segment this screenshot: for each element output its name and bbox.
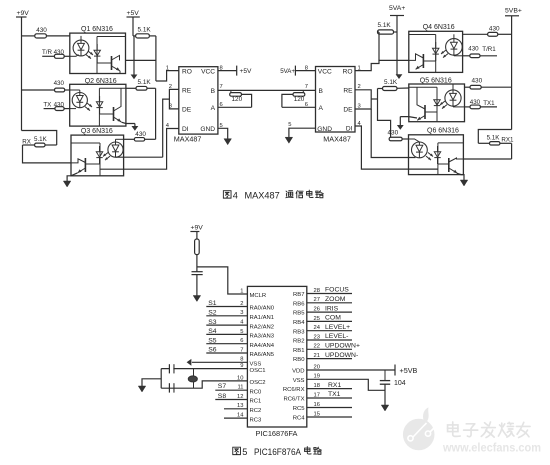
wire VDD pin20 to +5VB xyxy=(307,369,395,371)
svg-text:VCC: VCC xyxy=(201,68,215,75)
wire U2 RE pin2 / DE pin3 xyxy=(355,90,371,109)
svg-text:RC2: RC2 xyxy=(250,408,262,414)
svg-text:120: 120 xyxy=(232,96,243,103)
svg-text:FOCUS: FOCUS xyxy=(325,287,349,294)
wire Q4 LED cathode to T/R1 xyxy=(453,54,455,57)
wire U1 VCC pin8 to +5V xyxy=(218,70,237,72)
optocoupler Q2 transistor xyxy=(100,113,114,115)
svg-text:120: 120 xyxy=(294,96,305,103)
svg-text:VCC: VCC xyxy=(318,68,332,75)
ground (C4) xyxy=(381,405,389,411)
svg-text:LEVEL-: LEVEL- xyxy=(325,333,348,340)
wire 5.1K/RO net vertical xyxy=(155,36,157,81)
optocoupler Q5 LED xyxy=(452,84,454,90)
svg-text:MAX487: MAX487 xyxy=(245,191,280,201)
wire U1 RE pin2 xyxy=(169,89,178,109)
svg-text:DI: DI xyxy=(346,125,353,132)
svg-text:RC6/TX: RC6/TX xyxy=(284,397,305,403)
optocoupler Q2 LED xyxy=(79,90,81,92)
svg-text:430: 430 xyxy=(36,27,47,34)
wire ground tap (crystal) xyxy=(142,379,161,386)
svg-text:RX1: RX1 xyxy=(328,382,341,389)
svg-text:T/R1: T/R1 xyxy=(482,46,496,53)
svg-text:Q3 6N316: Q3 6N316 xyxy=(81,128,113,135)
resistor 5.1K pullup (RO) xyxy=(133,35,136,37)
svg-text:RB2: RB2 xyxy=(293,339,304,345)
svg-text:7: 7 xyxy=(305,84,308,90)
svg-text:RC6/RX: RC6/RX xyxy=(283,387,305,393)
svg-text:UPDOWN-: UPDOWN- xyxy=(325,352,358,359)
crystal Y1 xyxy=(193,369,195,389)
svg-text:RB4: RB4 xyxy=(293,320,305,326)
svg-text:Q1 6N316: Q1 6N316 xyxy=(81,26,113,33)
svg-text:RB3: RB3 xyxy=(293,329,305,335)
caption 图5 PIC16F876A电路 xyxy=(233,447,241,454)
wire Q6 collector to 5VB+ rail xyxy=(463,158,511,160)
wire A stub U2 pin6 xyxy=(282,106,316,108)
optocoupler Q1 LED xyxy=(80,36,82,40)
svg-text:430: 430 xyxy=(472,77,483,84)
svg-text:A: A xyxy=(211,105,216,112)
svg-text:5.1K: 5.1K xyxy=(138,79,152,86)
wire B line (U1 pin7 to U2 pin7) xyxy=(218,89,316,91)
svg-text:RA4/AN4: RA4/AN4 xyxy=(250,343,275,349)
svg-text:+9V: +9V xyxy=(17,10,30,17)
wire Q5 emitter to 430 (Q6 LED) xyxy=(400,117,417,118)
svg-text:Q5 6N316: Q5 6N316 xyxy=(420,77,452,84)
optocoupler Q3 emission arrows xyxy=(103,153,108,157)
svg-text:ZOOM: ZOOM xyxy=(325,296,346,303)
svg-text:5VA+: 5VA+ xyxy=(280,68,295,75)
svg-text:+9V: +9V xyxy=(191,225,204,232)
svg-text:RC0: RC0 xyxy=(250,389,263,395)
svg-text:RO: RO xyxy=(182,68,192,75)
wire pin13 stub xyxy=(224,408,247,410)
wire U1 DI pin4 to Q3 box xyxy=(100,129,179,170)
svg-text:+5V: +5V xyxy=(127,10,140,17)
svg-text:PIC16F876A: PIC16F876A xyxy=(254,447,302,457)
wire A stub U1 pin6 xyxy=(218,106,252,108)
svg-text:RB7: RB7 xyxy=(293,292,304,298)
svg-text:7: 7 xyxy=(220,84,223,90)
wire RE/DE to Q6 cathode net xyxy=(371,109,415,158)
svg-text:TX1: TX1 xyxy=(328,391,341,398)
svg-text:RE: RE xyxy=(182,87,192,94)
svg-text:430: 430 xyxy=(54,80,65,87)
svg-text:RA3/AN3: RA3/AN3 xyxy=(250,334,275,340)
wire crystal loop left xyxy=(160,369,162,389)
optocoupler Q2 inner transistor box xyxy=(98,88,100,126)
capacitor C2 (OSC1) xyxy=(168,364,170,373)
watermark text 电子发烧友 xyxy=(448,422,461,436)
svg-text:RB0: RB0 xyxy=(293,357,305,363)
wire RO pin1 connection xyxy=(156,71,179,81)
svg-text:430: 430 xyxy=(388,130,399,137)
svg-text:TX: TX xyxy=(43,101,51,108)
PIC16F876A U3 box xyxy=(247,286,306,427)
svg-text:T/R: T/R xyxy=(42,49,52,56)
svg-text:B: B xyxy=(319,88,324,95)
svg-text:RO: RO xyxy=(343,68,353,75)
svg-text:430: 430 xyxy=(468,46,479,53)
optocoupler Q4 LED xyxy=(453,34,455,38)
svg-text:5: 5 xyxy=(288,122,291,128)
optocoupler Q3 inner transistor box xyxy=(99,143,101,176)
wire U2 DI pin4 to Q6 box xyxy=(355,126,438,169)
svg-text:VSS: VSS xyxy=(250,362,262,368)
svg-text:RB5: RB5 xyxy=(293,311,305,317)
svg-text:5VB+: 5VB+ xyxy=(505,7,522,14)
wire 5VB+ jog to RX1 row xyxy=(478,130,511,144)
wire U2 GND pin5 to ground xyxy=(289,128,316,137)
optocoupler Q5 transistor xyxy=(425,111,437,113)
svg-text:S7: S7 xyxy=(218,383,227,390)
optocoupler Q1 photodiode xyxy=(96,44,98,50)
svg-text:RB6: RB6 xyxy=(293,301,305,307)
ground (U1 pin5) xyxy=(224,139,232,145)
wire OSC1 pin9 xyxy=(161,368,247,370)
U3 right pin stubs and signal labels xyxy=(307,293,352,295)
svg-text:+5VB: +5VB xyxy=(400,366,418,375)
svg-text:5.1K: 5.1K xyxy=(487,135,501,142)
resistor R1 (MCLR pullup) xyxy=(195,239,200,255)
optocoupler Q4 photodiode xyxy=(435,42,437,48)
svg-text:www.elecfans.com: www.elecfans.com xyxy=(442,443,541,455)
caption 图4 MAX487通信电路 xyxy=(223,191,231,198)
wire Q2 emitter to 430 (Q3 LED) xyxy=(121,122,134,123)
optocoupler Q6 photodiode xyxy=(437,146,439,152)
svg-text:4: 4 xyxy=(233,191,238,201)
optocoupler Q5 inner transistor box xyxy=(436,87,438,121)
resistor 430 (Q1 LED anode) xyxy=(22,35,35,37)
optocoupler Q3 LED xyxy=(115,139,117,142)
wire RX1 down to Q6 collector xyxy=(511,143,513,159)
svg-text:5VA+: 5VA+ xyxy=(389,5,405,12)
wire Q6 emitter to ground xyxy=(457,173,464,180)
svg-text:1: 1 xyxy=(240,288,243,294)
wire +9V rail jog to RX row xyxy=(22,131,57,146)
svg-text:104: 104 xyxy=(394,380,406,387)
svg-text:TX1: TX1 xyxy=(483,100,495,107)
wire U2 VCC pin8 to 5VA+ xyxy=(295,70,315,72)
svg-text:RA6/AN5: RA6/AN5 xyxy=(250,352,275,358)
wire VSS pin19 to ground net xyxy=(307,379,385,390)
optocoupler Q2 photodiode xyxy=(99,96,101,102)
optocoupler Q3 transistor xyxy=(85,163,99,165)
svg-text:GND: GND xyxy=(200,126,215,133)
wire Q3 emitter to ground xyxy=(67,173,77,181)
svg-text:GND: GND xyxy=(317,126,332,133)
wire RE/DE jog to 5.1K net xyxy=(371,98,377,100)
wire MCLR node to pin 1 xyxy=(197,267,248,294)
svg-text:430: 430 xyxy=(489,25,500,32)
ground (crystal) xyxy=(138,386,146,392)
wire RE/DE to Q3 cathode net xyxy=(163,99,170,157)
optocoupler Q5 emission arrows xyxy=(440,101,445,105)
svg-text:MAX487: MAX487 xyxy=(323,135,351,144)
svg-text:A: A xyxy=(319,105,324,112)
wire Q3 LED cathode to DE/RE net xyxy=(116,156,163,158)
wire 5.1K left to Q6 LED net (staircase) xyxy=(378,88,383,90)
svg-text:Q6 6N316: Q6 6N316 xyxy=(427,128,459,135)
svg-text:6: 6 xyxy=(305,102,308,108)
svg-text:IRIS: IRIS xyxy=(325,305,339,312)
svg-text:+5V: +5V xyxy=(240,68,253,75)
capacitor C4 104 xyxy=(384,370,386,380)
optocoupler Q4 emission arrows xyxy=(441,50,446,54)
svg-text:RC3: RC3 xyxy=(250,417,263,423)
wire 5.1K right to Q3 LED net xyxy=(155,88,157,139)
resistor 430 (Q2 LED anode) xyxy=(22,89,55,91)
svg-text:OSC1: OSC1 xyxy=(250,368,266,374)
optocoupler Q5 photodiode xyxy=(436,94,438,100)
optocoupler Q1 transistor xyxy=(97,62,111,64)
svg-text:DE: DE xyxy=(343,107,353,114)
svg-text:RC5: RC5 xyxy=(293,406,306,412)
ground (U2 pin5) xyxy=(285,137,293,143)
svg-text:5.1K: 5.1K xyxy=(384,79,398,86)
svg-text:RB1: RB1 xyxy=(293,348,304,354)
MAX487 U2 box xyxy=(316,67,356,133)
optocoupler Q6 LED xyxy=(409,139,420,142)
wire OSC2 pin10 xyxy=(194,381,248,388)
wire U2 RO pin1 to Q4 collector xyxy=(355,60,409,70)
svg-text:VSS: VSS xyxy=(293,378,305,384)
svg-text:VDD: VDD xyxy=(292,369,304,375)
wire U1 GND pin5 to ground xyxy=(218,128,228,138)
watermark elecfans logo xyxy=(403,408,435,451)
svg-text:OSC2: OSC2 xyxy=(250,380,266,386)
wire 5VA+ branch down xyxy=(396,32,398,76)
wire +5V branch to 5.1K (RE/DE pullup) xyxy=(133,36,135,76)
svg-text:RA0/AN0: RA0/AN0 xyxy=(250,306,275,312)
svg-text:RE: RE xyxy=(343,87,353,94)
wire pin14 stub xyxy=(224,417,247,419)
svg-text:MAX487: MAX487 xyxy=(174,135,202,144)
ground (Q6 emitter) xyxy=(460,180,468,186)
svg-text:1: 1 xyxy=(166,65,169,71)
resistor 120 (right termination) xyxy=(282,94,293,107)
svg-text:PIC16876FA: PIC16876FA xyxy=(256,429,298,438)
svg-text:RC1: RC1 xyxy=(250,399,262,405)
optocoupler Q6 transistor xyxy=(438,163,449,165)
ground (Q3 emitter) xyxy=(63,181,71,187)
svg-text:RA1/AN1: RA1/AN1 xyxy=(250,315,275,321)
svg-text:RX1: RX1 xyxy=(501,136,514,143)
svg-text:5.1K: 5.1K xyxy=(138,27,152,34)
svg-text:RA2/AN2: RA2/AN2 xyxy=(250,324,275,330)
optocoupler Q1 emission arrows xyxy=(88,51,93,55)
optocoupler Q2 emission arrows xyxy=(87,103,92,107)
optocoupler Q6 inner transistor box xyxy=(437,143,439,175)
optocoupler Q4 inner transistor box xyxy=(435,35,437,73)
svg-text:B: B xyxy=(211,88,216,95)
optocoupler Q3 photodiode xyxy=(99,146,101,152)
optocoupler Q6 emission arrows xyxy=(428,153,433,157)
MAX487 U1 box xyxy=(179,67,218,134)
capacitor C3 (OSC2) xyxy=(168,383,170,392)
svg-text:5: 5 xyxy=(242,447,247,457)
resistor 120 (left termination) xyxy=(230,90,232,92)
wire Q5 collector to 5.1K net xyxy=(397,87,409,89)
ground (C1) xyxy=(193,296,201,302)
optocoupler Q4 transistor xyxy=(423,60,435,62)
svg-text:COM: COM xyxy=(325,315,341,322)
wire Q1 collector to RO net xyxy=(126,59,156,61)
wire VSS pin8 arrow xyxy=(192,361,248,363)
svg-text:DI: DI xyxy=(182,126,189,133)
svg-text:5.1K: 5.1K xyxy=(378,22,392,29)
optocoupler Q1 inner transistor box xyxy=(96,37,98,74)
svg-text:UPDOWN+: UPDOWN+ xyxy=(325,343,360,350)
svg-text:MCLR: MCLR xyxy=(250,293,267,299)
svg-text:S8: S8 xyxy=(218,393,227,400)
svg-text:DE: DE xyxy=(182,107,192,114)
svg-text:Q4 6N316: Q4 6N316 xyxy=(423,24,455,31)
wire RX node down to Q3 collector xyxy=(23,145,72,163)
svg-text:5.1K: 5.1K xyxy=(34,136,48,143)
svg-text:RC4: RC4 xyxy=(293,416,306,422)
capacitor C1 (MCLR) xyxy=(192,271,203,273)
svg-text:LEVEL+: LEVEL+ xyxy=(325,324,350,331)
wire 5.1K/RO net vertical (right) xyxy=(378,32,380,60)
